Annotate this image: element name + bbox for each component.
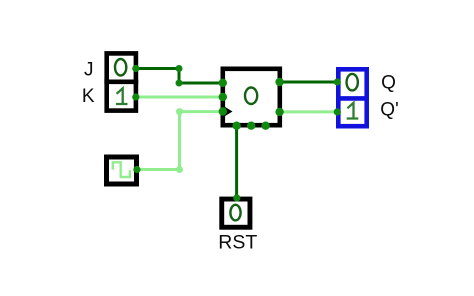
svg-text:K: K	[82, 86, 95, 107]
node K input pin	[132, 93, 139, 100]
wire flip-flop RST pin to RST input	[235, 127, 238, 198]
node flip-flop PRE pin	[247, 122, 255, 130]
node J input pin	[132, 65, 139, 72]
flip-flop U1 (JK)	[221, 69, 280, 125]
output block Q/Q'	[336, 69, 369, 126]
node RST input pin	[233, 194, 240, 201]
wire clock to flip-flop CLK pin	[137, 112, 223, 170]
node flip-flop CLK pin	[219, 107, 227, 115]
node flip-flop Q pin	[275, 78, 283, 86]
node output Q' pin	[334, 108, 341, 115]
value label 0 (RST input)	[230, 205, 240, 221]
wire K input to flip-flop K pin	[136, 96, 223, 99]
node J wire corner lower	[176, 80, 183, 87]
svg-text:RST: RST	[218, 232, 257, 254]
svg-text:Q: Q	[381, 72, 396, 93]
node flip-flop K pin	[219, 93, 227, 101]
wire J input to flip-flop J pin	[136, 69, 223, 84]
input block J/K	[104, 53, 138, 110]
node J wire corner upper	[176, 65, 183, 72]
value label 0 (flip-flop state)	[245, 88, 257, 105]
node flip-flop J pin	[219, 79, 227, 87]
node clock wire corner lower	[176, 166, 183, 173]
value label 1 (output Q')	[347, 103, 359, 119]
value label 0 (output Q)	[347, 74, 358, 91]
value label 1 (K input)	[116, 88, 128, 104]
node flip-flop EN pin	[261, 122, 269, 130]
wire flip-flop Q' to output Q'	[280, 110, 339, 113]
node clock wire corner upper	[176, 108, 183, 115]
value label 0 (J input)	[115, 59, 126, 76]
node flip-flop RST pin	[232, 122, 240, 130]
node output Q pin	[334, 78, 341, 85]
clock CLK1	[107, 157, 137, 184]
node clock output pin	[133, 166, 140, 173]
wire flip-flop Q to output Q	[280, 81, 339, 84]
svg-text:J: J	[84, 59, 94, 80]
svg-text:Q': Q'	[380, 100, 398, 121]
node flip-flop Q' pin	[275, 108, 283, 116]
input RST	[222, 199, 250, 227]
